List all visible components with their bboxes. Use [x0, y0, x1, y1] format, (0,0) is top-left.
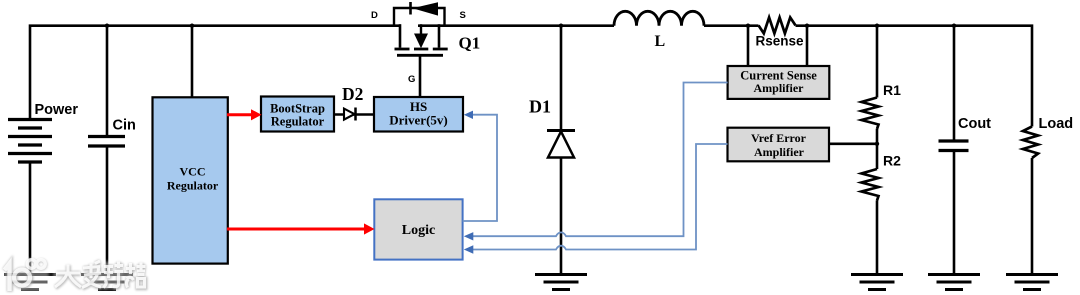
svg-text:D1: D1	[529, 97, 551, 117]
svg-text:Q1: Q1	[459, 34, 481, 53]
wire battery negative to ground	[29, 162, 32, 274]
ground (battery)	[4, 275, 56, 290]
resistor Load	[1023, 127, 1038, 159]
wire R2 to ground	[876, 201, 879, 275]
node junction VCC tap	[190, 24, 194, 28]
wire top rail Rsense to Load drop	[796, 26, 1033, 127]
wire top rail Q1 source to inductor	[418, 24, 614, 27]
ground (Cout)	[928, 275, 980, 290]
wire Cin branch top	[106, 24, 109, 135]
node junction D1 tap	[559, 24, 563, 28]
watermark logo and text	[3, 259, 147, 292]
ground (R2)	[851, 275, 903, 290]
ground (Load)	[1006, 275, 1058, 290]
wire D2 link	[334, 113, 374, 116]
resistor R1	[862, 98, 879, 130]
ground (D1)	[535, 275, 587, 290]
node junction divider node	[875, 142, 879, 146]
block Current Sense Amplifier	[728, 66, 830, 99]
svg-text:R2: R2	[883, 153, 901, 169]
capacitor Cout	[939, 141, 969, 151]
diode D2	[344, 108, 356, 121]
svg-text:Cin: Cin	[113, 118, 136, 134]
diode D1 (freewheel)	[547, 131, 575, 158]
block VCC Regulator	[153, 97, 228, 263]
wire Rsense right sense tap	[806, 24, 809, 66]
wire top rail inductor to Rsense	[704, 24, 759, 27]
svg-text:Amplifier: Amplifier	[754, 81, 805, 95]
wire D1 anode drop	[560, 24, 563, 130]
inductor L	[614, 11, 704, 25]
resistor R2	[862, 169, 879, 201]
wire VCC regulator feed	[191, 24, 194, 98]
wire Load to ground	[1031, 158, 1034, 274]
svg-text:Power: Power	[35, 102, 79, 118]
wire Rsense left sense tap	[747, 24, 750, 66]
wire Vref error amp to divider node	[829, 143, 877, 146]
node junction Rsense right	[805, 24, 809, 28]
wire D1 cathode to ground	[560, 157, 563, 274]
svg-text:D2: D2	[342, 84, 363, 104]
svg-text:Logic: Logic	[402, 223, 435, 238]
svg-text:Driver(5v): Driver(5v)	[389, 113, 447, 128]
wire red VCC to Logic	[227, 228, 364, 231]
svg-text:Amplifier: Amplifier	[754, 145, 805, 159]
wire Cout branch top	[953, 24, 956, 140]
node junction Cin tap	[105, 24, 109, 28]
wire Cin branch bottom	[106, 146, 109, 274]
node junction Rsense left	[746, 24, 750, 28]
wire Cout to ground	[953, 151, 956, 274]
wire R1 top drop	[876, 24, 879, 97]
wire blue Logic to HS driver	[463, 115, 497, 221]
svg-text:Regulator: Regulator	[167, 178, 219, 192]
wire top rail left (battery to Q1 drain)	[30, 26, 401, 120]
wire blue vref-error to Logic	[473, 144, 728, 250]
svg-text:BootStrap: BootStrap	[270, 102, 325, 116]
svg-text:L: L	[655, 33, 666, 50]
wire Q1 gate to HS driver	[419, 56, 422, 97]
svg-text:Vref Error: Vref Error	[751, 131, 807, 145]
ground (Cin)	[81, 275, 133, 290]
capacitor Cin	[88, 137, 125, 147]
svg-text:D: D	[371, 10, 378, 21]
resistor Rsense	[759, 17, 796, 33]
node junction R1 tap	[875, 24, 879, 28]
svg-text:Load: Load	[1039, 116, 1074, 132]
wire blue current-sense to Logic	[473, 83, 728, 237]
svg-text:Rsense: Rsense	[756, 34, 805, 49]
svg-text:R1: R1	[883, 82, 901, 98]
svg-text:G: G	[408, 74, 415, 85]
svg-text:VCC: VCC	[180, 165, 206, 179]
svg-text:Regulator: Regulator	[271, 115, 325, 129]
transistor Q1 (high-side MOSFET with body diode)	[394, 2, 448, 55]
battery Power	[8, 120, 52, 163]
wire R1-R2 middle	[876, 129, 879, 169]
svg-text:S: S	[460, 10, 466, 21]
wire red VCC to BootStrap	[227, 113, 251, 116]
svg-text:Cout: Cout	[958, 116, 991, 132]
block Vref Error Amplifier	[728, 128, 830, 162]
node junction Cout tap	[952, 24, 956, 28]
block Logic	[374, 199, 462, 259]
block BootStrap Regulator	[261, 97, 334, 132]
block HS Driver	[374, 97, 463, 132]
